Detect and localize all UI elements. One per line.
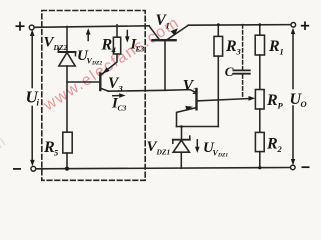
wire R4 to V3 emitter	[102, 54, 117, 74]
U_O arrowheads	[291, 28, 295, 34]
wire R3 branch	[217, 25, 219, 37]
svg-text:1: 1	[280, 47, 284, 57]
wire R1 branch from top rail	[259, 25, 261, 36]
wire top rail left (input + to V1 collector)	[34, 26, 149, 28]
I_C3 arrow head right	[119, 93, 125, 98]
svg-text:DZ1: DZ1	[156, 148, 171, 157]
terminal polarity marks	[13, 21, 310, 169]
transistor V3 (PNP)	[100, 74, 108, 92]
potentiometer RP	[255, 90, 264, 110]
wire V2 emitter bottom run to R3 bottom	[177, 126, 219, 128]
watermark www.elecfans.com diagonal	[40, 14, 183, 115]
wire R1 to Rp	[259, 55, 261, 90]
node output + terminal	[291, 23, 296, 28]
wire R2 to bottom rail	[259, 152, 261, 168]
svg-text:2: 2	[192, 86, 198, 96]
wire R4 branch from top rail	[116, 25, 118, 37]
transistor V2 emitter arrow (toward bar)	[185, 106, 193, 111]
wire R3 bottom vertical crossing wiper wire	[217, 56, 219, 126]
capacitor C dashed branch	[242, 25, 244, 70]
resistor R3	[214, 36, 223, 56]
node input + terminal	[29, 25, 34, 30]
plus right	[301, 25, 309, 27]
svg-text:DZ2: DZ2	[53, 43, 68, 52]
minus left	[13, 168, 21, 170]
capacitor C plates	[233, 69, 249, 71]
transistor V2	[177, 89, 197, 127]
wire top rail right (V1 emitter to output +)	[188, 24, 291, 27]
wire bottom rail	[36, 168, 291, 169]
plus left	[16, 25, 25, 27]
svg-text:DZ1: DZ1	[217, 153, 228, 159]
dashed box (protection / current source block)	[42, 11, 145, 181]
svg-text:2: 2	[277, 144, 283, 154]
wire zener DZ2 branch from top rail	[66, 27, 68, 53]
arrowheads (filled)	[30, 23, 295, 171]
wire zener to base node and R5	[66, 66, 68, 132]
svg-text:DZ2: DZ2	[91, 61, 102, 67]
wire stub to zener DZ1	[181, 127, 183, 140]
U_VDZ2 arrow head up	[86, 28, 91, 34]
I_E3 arrow head down	[125, 36, 130, 42]
svg-text:R: R	[266, 136, 278, 153]
resistor R2	[255, 132, 264, 151]
U_VDZ1 arrow head down	[195, 147, 200, 153]
resistor R1	[255, 35, 264, 55]
svg-text:C3: C3	[118, 104, 127, 113]
svg-text:R: R	[225, 38, 237, 55]
wire U_VDZ1 annotation arrow (down)	[196, 140, 198, 149]
svg-text:R: R	[268, 38, 280, 55]
resistor R5	[63, 132, 72, 153]
junction R3/top rail	[217, 23, 220, 26]
svg-text:C: C	[225, 64, 234, 79]
wire R5 to bottom rail	[66, 153, 68, 169]
svg-text:P: P	[278, 101, 284, 111]
wire U_i annotation line with arrows	[31, 33, 33, 162]
svg-text:4: 4	[111, 45, 116, 55]
transistor V3 emitter arrow (into bar)	[103, 67, 110, 74]
svg-text:O: O	[301, 99, 307, 109]
wire DZ1 to bottom rail	[180, 152, 182, 168]
wire U_VDZ2 annotation arrow (up)	[87, 33, 89, 41]
zener diode VDZ2	[59, 48, 76, 66]
svg-text:R: R	[266, 92, 278, 109]
wire I_C3 annotation arrow (right)	[113, 95, 121, 97]
resistor R4	[113, 37, 120, 54]
wire V3 base wire	[67, 81, 99, 83]
junction DZ1 stub	[180, 125, 183, 128]
transistor V1 emitter arrow	[171, 28, 178, 35]
wire V2 base to Rp wiper	[197, 99, 250, 101]
minus right	[302, 166, 310, 168]
junction R2/bottom rail	[258, 166, 261, 169]
watermark fragment bottom-left	[0, 133, 10, 161]
junction R5/bottom rail	[65, 167, 69, 171]
node input - terminal	[31, 166, 36, 171]
wire Rp to R2	[259, 109, 261, 132]
potentiometer RP wiper arrow	[249, 96, 256, 101]
transistor V1 (NPN series pass)	[149, 25, 188, 90]
node output - terminal	[291, 165, 296, 170]
svg-text:3: 3	[236, 47, 242, 57]
U_i arrowheads	[30, 30, 35, 36]
zener diode VDZ1	[173, 136, 190, 152]
svg-text:1: 1	[166, 21, 170, 31]
svg-text:3: 3	[118, 84, 124, 94]
wire U_O annotation line with arrows	[292, 31, 294, 162]
wire I_E3 annotation arrow (down)	[126, 31, 128, 39]
wire I_C3 collector wire to V1 base / V2 collector	[109, 90, 197, 93]
svg-text:E3: E3	[135, 45, 145, 54]
junction R1/top rail	[258, 23, 261, 26]
